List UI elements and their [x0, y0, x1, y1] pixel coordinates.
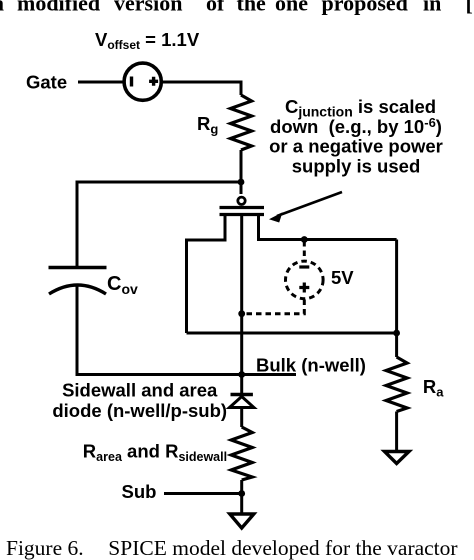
wire Rg bottom to gate bubble: [240, 150, 243, 194]
svg-text:version: version: [114, 0, 182, 16]
svg-text:Figure 6.: Figure 6.: [6, 536, 84, 560]
wire Cov bottom to bulk wire: [76, 285, 79, 377]
wire junction to Cov top (left loop): [77, 182, 241, 266]
bulk horizontal wire: [77, 373, 296, 376]
node bulk wire junction: [238, 371, 245, 378]
svg-text:one: one: [275, 0, 308, 16]
wire diode to Rarea: [240, 408, 243, 428]
annotation arrow: [277, 192, 342, 216]
capacitor Cov curved plate: [49, 285, 106, 294]
V1 minus mark: [130, 77, 133, 87]
svg-text:proposed: proposed: [322, 0, 408, 16]
svg-text:or a negative power: or a negative power: [269, 136, 443, 157]
V1 plus mark: [149, 77, 158, 86]
cropped body text line: "a modified version of the one proposed in [": [0, 0, 473, 16]
5V plus mark: [299, 283, 309, 293]
wire Ra to ground: [395, 412, 398, 452]
box left vertical: [185, 239, 188, 334]
dashed wire 5V top: [303, 241, 306, 260]
voltage source V1 (Voffset): [124, 63, 161, 100]
diode D1 anode triangle: [230, 397, 254, 408]
svg-text:[: [: [466, 0, 473, 16]
mosfet M1 gate bubble: [238, 197, 245, 204]
ground sub: [230, 514, 254, 528]
svg-text:Sidewall and area: Sidewall and area: [62, 380, 218, 401]
svg-text:5V: 5V: [331, 267, 354, 288]
svg-text:diode (n-well/p-sub): diode (n-well/p-sub): [52, 400, 227, 421]
node bulk dashed junction: [238, 310, 245, 317]
wire Sub: [164, 492, 242, 495]
node sub junction: [238, 490, 245, 497]
ground Ra: [385, 452, 410, 464]
diode D1 cathode bar: [231, 393, 253, 396]
wire bulk node to diode: [240, 375, 243, 396]
svg-text:a: a: [0, 0, 4, 16]
mosfet M1 source stub and wire to box: [187, 213, 226, 240]
wire Rarea to sub node: [240, 480, 243, 514]
svg-text:down (e.g., by 10-6): down (e.g., by 10-6): [270, 115, 442, 137]
wire Gate to source V1: [78, 81, 123, 84]
right vertical wire: [395, 240, 398, 358]
wire V1 to Rg top: [162, 82, 242, 95]
mosfet M1 drain stub and wire to right vertical: [259, 213, 397, 240]
svg-text:Sub: Sub: [122, 481, 157, 502]
mosfet M1 bulk wire down: [240, 215, 243, 375]
svg-text:Bulk (n-well): Bulk (n-well): [256, 355, 366, 376]
svg-text:modified: modified: [17, 0, 100, 16]
dashed wire 5V bottom to bulk: [245, 300, 304, 314]
mosfet M1 gate plate: [220, 206, 265, 209]
capacitor Cov top plate: [49, 266, 107, 269]
resistor Rarea/Rsidewall: [231, 427, 252, 480]
svg-text:supply is used: supply is used: [292, 155, 421, 176]
svg-text:in: in: [423, 0, 441, 16]
node box bottom / Ra junction: [393, 330, 400, 337]
svg-text:of: of: [206, 0, 225, 16]
node drain/5V junction: [301, 236, 308, 243]
resistor Ra: [386, 357, 407, 412]
mosfet M1 channel plate: [220, 213, 265, 216]
svg-text:the: the: [237, 0, 267, 16]
5V minus mark: [299, 265, 309, 268]
voltage source 5V dashed circle: [286, 261, 324, 299]
node gate/Cov junction: [238, 179, 245, 186]
svg-text:Gate: Gate: [26, 72, 67, 93]
box bottom wire: [187, 332, 397, 335]
svg-text:SPICE model developed for the: SPICE model developed for the varactor: [108, 536, 457, 560]
resistor Rg: [231, 95, 252, 150]
